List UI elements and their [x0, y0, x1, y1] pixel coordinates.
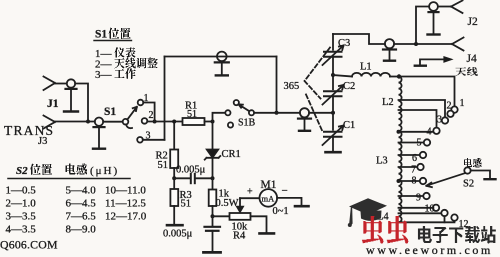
ground pot: [260, 232, 275, 235]
node R2 bottom: [172, 176, 176, 180]
svg-text:12—17.0: 12—17.0: [105, 211, 147, 223]
svg-text:5—4.0: 5—4.0: [66, 185, 97, 197]
wire top bypass: [165, 56, 277, 58]
node pot junction: [211, 214, 215, 218]
label S2 position table: [6, 164, 147, 236]
wire tap 11: [399, 212, 442, 214]
svg-text:S1: S1: [104, 106, 116, 118]
svg-text:C2: C2: [343, 81, 355, 92]
resistor 1k 0.5W: [209, 178, 239, 216]
wire M1 to ground: [277, 198, 301, 206]
svg-text:S2: S2: [463, 179, 474, 190]
svg-text:6: 6: [412, 153, 417, 164]
node J1 junction: [86, 120, 90, 124]
ground M1: [295, 205, 309, 208]
switch S2 contact 10: [433, 205, 439, 211]
variable capacitor C3: [323, 34, 351, 65]
svg-text:5: 5: [417, 138, 422, 149]
wire riser to J2 upper: [416, 7, 429, 45]
resistor R2: [156, 122, 179, 179]
ground C stack: [326, 151, 341, 154]
node R2 top: [172, 120, 176, 124]
svg-text:9: 9: [416, 193, 421, 204]
wire pot to ground: [251, 216, 267, 233]
switch S2 wiper arrow: [426, 173, 465, 187]
node coil tap4: [397, 130, 401, 134]
node stack mid: [331, 111, 335, 115]
svg-text:C3: C3: [338, 38, 350, 49]
wire to J2 lower prong: [394, 43, 452, 45]
wire J1 to junction: [75, 84, 88, 122]
wire antenna feed: [399, 77, 455, 107]
svg-text:6—4.5: 6—4.5: [66, 198, 97, 210]
wire bypass riser: [164, 57, 166, 140]
label antenna CJK: [456, 67, 478, 76]
feedthrough capacitor at S1: [93, 118, 105, 149]
svg-text:0.5W: 0.5W: [216, 198, 239, 209]
svg-text:3—3.5: 3—3.5: [6, 211, 37, 223]
switch S1 contact 2: [142, 118, 148, 124]
svg-text:8: 8: [412, 176, 417, 187]
svg-text:2: 2: [447, 101, 452, 112]
wire tap 6: [399, 154, 420, 156]
node contact1 join: [153, 120, 157, 124]
label inductance CJK: [464, 158, 482, 168]
svg-text:J3: J3: [38, 136, 47, 147]
wire tap 8: [399, 180, 420, 182]
wire J1 upper prong: [44, 77, 56, 91]
wire TRANS input: [55, 121, 95, 123]
svg-text:www.eeworm.com: www.eeworm.com: [366, 243, 493, 257]
ground lower cap: [204, 251, 221, 254]
svg-text:51: 51: [158, 160, 169, 171]
capacitor 0.005u upper: [174, 165, 212, 184]
node CR1 bottom: [211, 176, 215, 180]
wire contact1 riser: [143, 103, 154, 122]
feedthrough capacitor at J1: [64, 79, 78, 111]
node stack L1 tap: [331, 73, 335, 77]
svg-text:S1B: S1B: [238, 118, 256, 129]
svg-text:0.005μ: 0.005μ: [163, 229, 193, 240]
svg-text:C1: C1: [343, 120, 355, 131]
svg-text:L1: L1: [360, 62, 372, 73]
wire tap 4b: [399, 131, 434, 133]
meter M1: [240, 179, 289, 217]
switch S1 contact 3: [137, 137, 143, 143]
wire to J2 upper prong: [438, 6, 451, 8]
diode CR1: [205, 122, 241, 179]
node bypass join: [275, 111, 279, 115]
wire tap 4: [399, 110, 437, 127]
connector J2 upper prong: [451, 1, 463, 14]
svg-text:S2: S2: [16, 165, 28, 177]
svg-text:M1: M1: [261, 179, 277, 191]
switch S1 contact 1: [138, 100, 144, 106]
wire to C stack: [309, 112, 333, 114]
wire bypass drop: [276, 57, 278, 113]
capacitor 0.005u lower: [163, 216, 220, 252]
resistor R1: [183, 101, 205, 126]
feedthrough capacitor top: [215, 52, 229, 76]
switch S2 pole: [464, 167, 470, 173]
switch S1 wiper arm: [127, 107, 137, 120]
switch S2 contact 6: [420, 152, 426, 158]
svg-text:10—11.0: 10—11.0: [105, 185, 146, 197]
wire tap 5: [399, 142, 424, 144]
wire J1 upper lead: [55, 83, 67, 85]
resistor R3: [170, 178, 191, 225]
wire S1B to tank: [254, 112, 300, 114]
svg-text:0.005μ: 0.005μ: [176, 165, 206, 176]
node R1 out: [211, 120, 215, 124]
node J2 branch: [414, 42, 418, 46]
svg-text:R4: R4: [233, 231, 246, 242]
svg-text:J2: J2: [468, 16, 478, 28]
svg-text:1—0.5: 1—0.5: [6, 185, 37, 197]
connector J3 lower prong: [44, 116, 56, 129]
switch S2 contact 2: [447, 111, 453, 117]
feedthrough capacitor J2 lower: [383, 39, 396, 61]
wire stack top to J2: [333, 34, 385, 44]
wire contact3 to riser: [143, 139, 165, 141]
svg-text:51: 51: [181, 199, 192, 210]
variable capacitor C2: [323, 81, 356, 130]
svg-text:7—6.5: 7—6.5: [66, 211, 97, 223]
switch S2 contact 12: [451, 214, 457, 220]
switch S1B contacts: [225, 100, 255, 129]
switch S2 contact 1: [451, 106, 457, 112]
wire riser to S1B: [213, 113, 226, 122]
svg-text:L3: L3: [376, 156, 388, 167]
svg-text:J4: J4: [467, 53, 477, 65]
svg-text:CR1: CR1: [222, 149, 241, 160]
wire to S1 pole: [103, 121, 122, 123]
switch S2 contact 8: [420, 178, 426, 184]
svg-text:0~1: 0~1: [273, 206, 289, 217]
svg-text:3: 3: [437, 115, 442, 126]
watermark site name CJK: [418, 226, 496, 244]
wire stack seg2: [332, 57, 334, 89]
node L1 out: [397, 74, 401, 78]
label S1 positions legend: [94, 28, 158, 82]
switch S2 contact 9: [423, 193, 429, 199]
svg-text:Q606.COM: Q606.COM: [0, 238, 58, 252]
svg-text:3—: 3—: [95, 69, 113, 81]
wire tap 10: [399, 207, 433, 209]
wire tap 7: [399, 166, 418, 168]
svg-text:mA: mA: [262, 194, 276, 204]
svg-text:365: 365: [284, 81, 300, 92]
watermark chongchong red: [362, 216, 408, 244]
svg-text:2: 2: [149, 110, 154, 121]
switch S1 pole: [123, 119, 129, 125]
watermark graduation cap: [348, 198, 387, 227]
svg-text:L2: L2: [382, 97, 394, 108]
switch S2 contact 3: [442, 117, 448, 123]
feedthrough capacitor at tank: [298, 108, 311, 131]
connector J4 arrow: [415, 53, 477, 66]
feedthrough capacitor J2 upper: [428, 2, 440, 34]
wire gang dashed: [305, 48, 331, 132]
svg-text:7: 7: [411, 165, 416, 176]
node coil tap8: [397, 179, 401, 183]
svg-text:4—3.5: 4—3.5: [6, 224, 37, 236]
svg-text:11—12.5: 11—12.5: [105, 198, 146, 210]
wire contact 11 stem: [444, 216, 446, 222]
switch S2 contact 4: [433, 128, 439, 134]
connector J2 lower prong: [452, 38, 464, 51]
svg-text:8—9.0: 8—9.0: [66, 224, 97, 236]
svg-text:−: −: [282, 185, 288, 197]
svg-text:1: 1: [460, 98, 465, 109]
svg-text:51: 51: [187, 109, 197, 120]
ground S2: [485, 178, 496, 180]
svg-text:(μH): (μH): [90, 165, 119, 177]
wire tap 3: [399, 100, 446, 117]
wire S2 to ground: [471, 171, 490, 179]
switch S2 contact 7: [417, 164, 423, 170]
svg-text:+: +: [247, 187, 253, 198]
svg-text:J1: J1: [47, 98, 59, 110]
inductor L1: [333, 62, 399, 77]
svg-text:S1: S1: [95, 29, 107, 41]
switch S2 contact 5: [424, 139, 430, 145]
inductor L2 L3 L4 tapped coil: [399, 77, 402, 223]
wire main node to R1: [147, 121, 182, 123]
wire coil bottom to 12: [399, 221, 455, 223]
svg-text:2—1.0: 2—1.0: [6, 198, 37, 210]
wire tap 9: [399, 195, 424, 197]
ground R3: [167, 224, 183, 227]
switch S2 contact 11: [441, 210, 447, 216]
potentiometer R4: [213, 198, 251, 241]
wire R1 to node: [205, 121, 213, 123]
variable capacitor C1: [323, 120, 356, 152]
